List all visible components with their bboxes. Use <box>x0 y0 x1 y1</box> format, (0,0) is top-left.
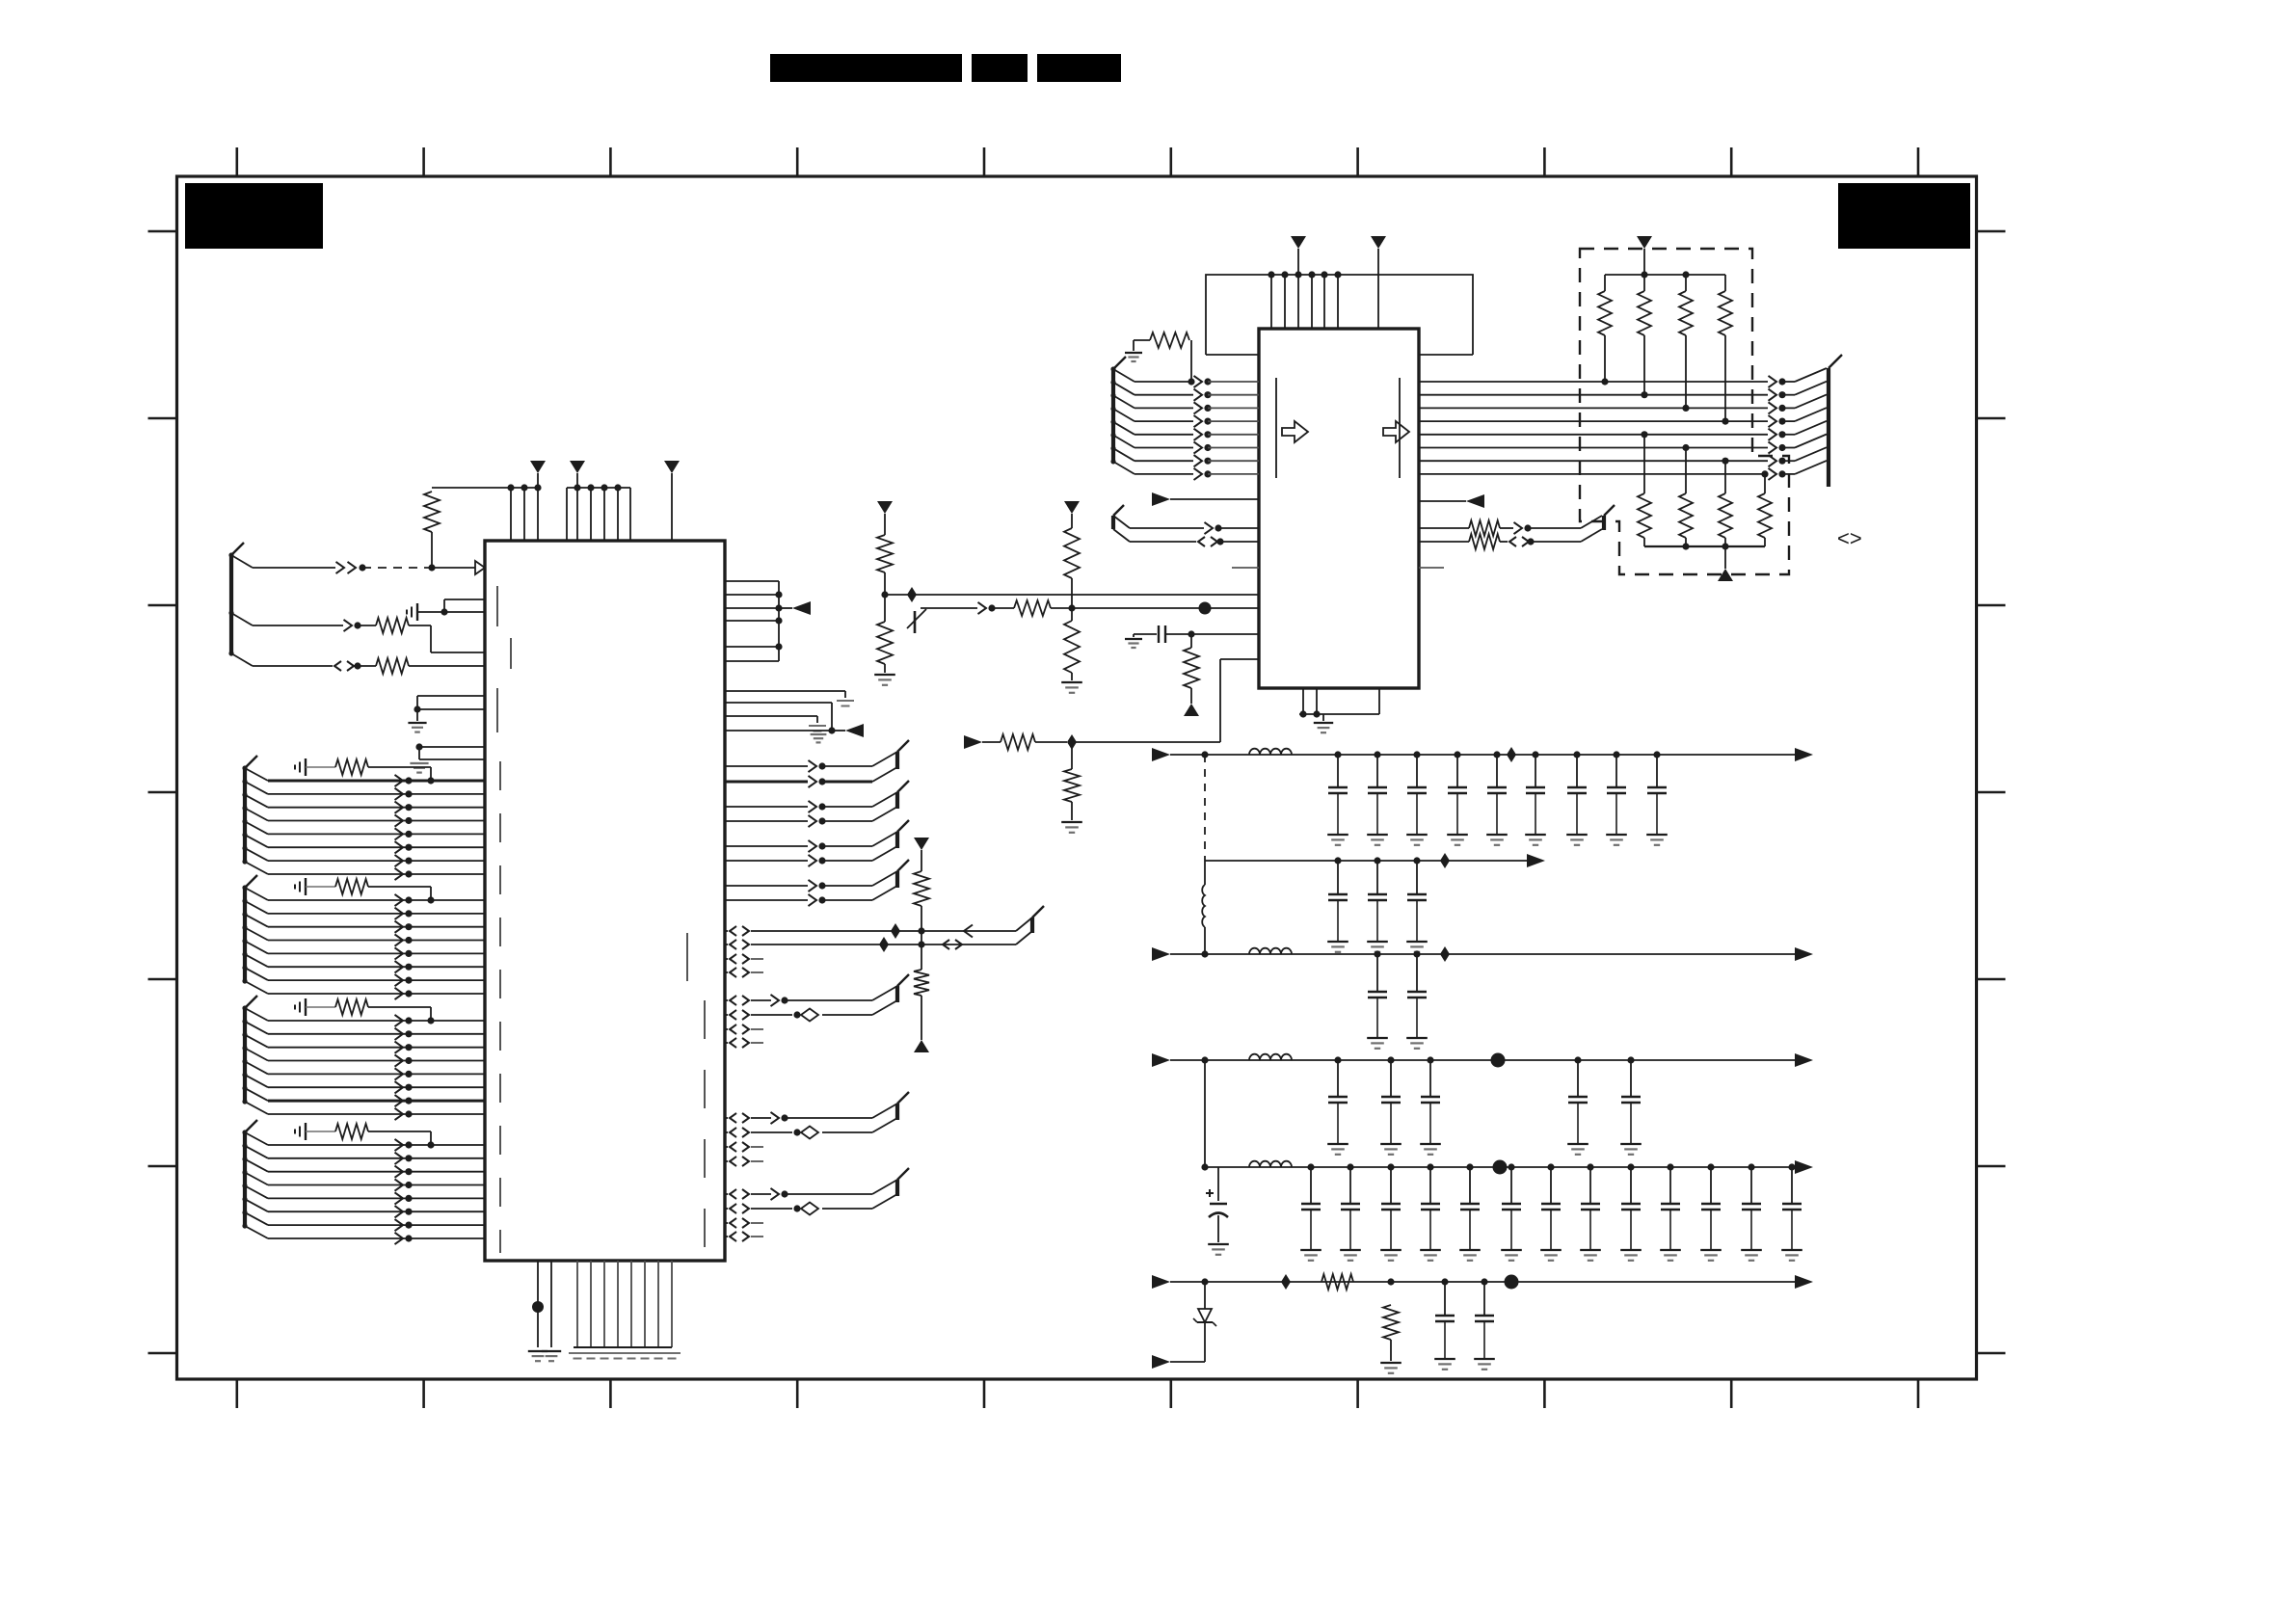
svg-text:<>: <> <box>1837 526 1862 550</box>
